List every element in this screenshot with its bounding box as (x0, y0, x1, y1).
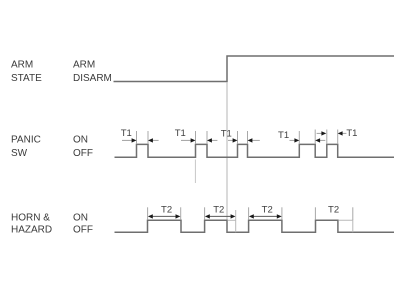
svg-text:PANIC: PANIC (11, 134, 41, 145)
svg-text:DISARM: DISARM (73, 73, 112, 84)
label HORN & HAZARD (11, 212, 52, 235)
label HORN ON / OFF levels (73, 212, 93, 235)
panic pulse5 extension lines (326, 130, 328, 145)
svg-text:ON: ON (73, 212, 88, 223)
dimension T1 pulse5 gap right-pointing arrow (317, 132, 322, 134)
svg-text:HORN &: HORN & (11, 212, 50, 223)
svg-text:OFF: OFF (73, 148, 93, 159)
horn dim2 extension lines (204, 207, 206, 220)
wire horn pulse2 ghost continuation (228, 219, 236, 221)
svg-text:STATE: STATE (11, 73, 42, 84)
dimension T1 pulse2 right-pointing arrow (181, 139, 191, 141)
label PANIC ON / OFF levels (73, 134, 93, 159)
horn dim3 extension lines (248, 207, 250, 220)
svg-text:ON: ON (73, 134, 88, 145)
svg-text:T1: T1 (278, 130, 289, 141)
dimension T1 pulse3 left-pointing arrow (252, 139, 260, 141)
dimension T1 pulse5 left-pointing arrow (342, 132, 346, 134)
wire ARM STATE waveform (114, 56, 395, 82)
label ARM / DISARM levels (73, 59, 112, 84)
dimension T2 horn pulse2 double arrow (207, 215, 233, 217)
svg-text:SW: SW (11, 148, 28, 159)
svg-text:OFF: OFF (73, 224, 93, 235)
svg-text:T1: T1 (221, 128, 232, 139)
node panic-rise2 short reference line (194, 160, 196, 184)
node arm-transition vertical reference line (226, 82, 228, 232)
svg-text:ARM: ARM (73, 59, 95, 70)
svg-text:T1: T1 (175, 128, 186, 139)
svg-text:T2: T2 (213, 205, 224, 216)
label PANIC SW (11, 134, 41, 159)
dimension T1 pulse1 left-pointing arrow (152, 139, 158, 141)
dimension T1 pulse4 right-pointing arrow (290, 139, 296, 141)
svg-text:T2: T2 (328, 205, 339, 216)
wire HORN & HAZARD waveform (115, 220, 395, 232)
dimension T2 horn pulse3 double arrow (251, 215, 280, 217)
dimension T1 pulse3 right-pointing arrow (228, 139, 233, 141)
dimension T1 pulse4 gap left-pointing arrow (320, 139, 326, 141)
panic pulse1 extension lines (136, 131, 138, 144)
horn dim4 extension lines (314, 207, 316, 220)
dimension T1 pulse1 right-pointing arrow (122, 139, 132, 141)
svg-text:T1: T1 (346, 128, 357, 139)
horn dim1 extension lines (147, 207, 149, 220)
label ARM STATE (11, 59, 42, 84)
dimension T1 pulse2 left-pointing arrow (211, 139, 217, 141)
svg-text:T1: T1 (121, 128, 132, 139)
panic pulse4 extension lines (298, 131, 300, 144)
svg-text:ARM: ARM (11, 59, 33, 70)
svg-text:T2: T2 (262, 205, 273, 216)
wire PANIC SW waveform (115, 144, 395, 157)
wire horn pulse4 ghost continuation (339, 220, 353, 232)
panic pulse2 extension lines (195, 131, 197, 144)
panic pulse3 extension lines (237, 131, 239, 144)
dimension T2 horn pulse1 double arrow (150, 215, 178, 217)
svg-text:HAZARD: HAZARD (11, 224, 52, 235)
svg-text:T2: T2 (161, 205, 172, 216)
